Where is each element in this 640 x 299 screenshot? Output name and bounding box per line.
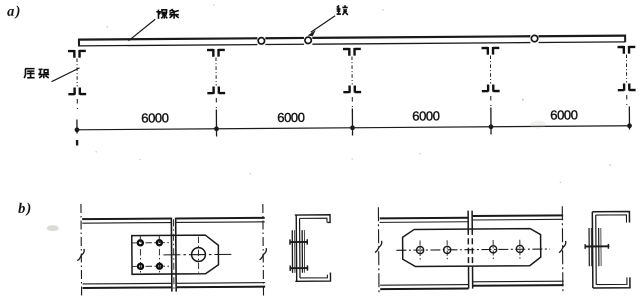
bolt B3 (138, 264, 143, 269)
hinge circle 3 (531, 35, 537, 41)
purlin beam segment 2 (265, 38, 304, 45)
label 屋架 (roof truss) glyphs (24, 69, 49, 79)
channel bottom flange with lip (593, 277, 630, 288)
hinge circle 2 (305, 37, 311, 43)
truss support 2 (207, 49, 225, 108)
butt joint lines (left detail) (171, 218, 176, 292)
bolt B1 (138, 240, 143, 245)
long splice plate octagon (403, 229, 541, 267)
break mark (right detail, right) (559, 241, 566, 253)
bolt B4 (157, 264, 162, 269)
splice centre line (172, 219, 175, 290)
channel web double line (295, 215, 297, 281)
truss support 3 (343, 48, 361, 107)
channel bottom flange with lip (295, 273, 330, 282)
scan speckles (94, 1, 611, 186)
svg-text:6000: 6000 (141, 110, 169, 125)
truss centre line right (right detail) (561, 206, 564, 293)
cleat plate bars (588, 228, 590, 266)
break mark on left centre line (77, 249, 84, 261)
label 檩条 (purlin) glyphs (156, 9, 179, 19)
bolt vertical centre marks (420, 240, 520, 260)
purlin piece 2 bottom flange lines (177, 283, 265, 288)
purlin piece 4 bottom flange lines (473, 281, 564, 286)
bolt with head and nut (upper) (289, 241, 308, 243)
dimension tick 3 (351, 108, 353, 135)
channel top flange with lip (592, 211, 629, 222)
purlin beam segment 3 (312, 36, 530, 44)
svg-text:6000: 6000 (550, 107, 578, 122)
bolt B7 (490, 246, 497, 253)
plate horizontal centre line (396, 249, 549, 250)
break mark on right centre line (259, 248, 266, 260)
dimension tick 2 (215, 109, 217, 136)
truss support 5 (617, 46, 635, 105)
purlin piece 4 top flange lines (473, 215, 564, 220)
bolt B8 (516, 245, 523, 252)
dimension tick 5 (628, 106, 630, 129)
cleat plate bars (291, 230, 293, 273)
hinge circle 1 (258, 38, 264, 44)
dimension line (76, 126, 631, 130)
pin vertical centre line (197, 237, 199, 273)
truss support 1 (68, 50, 86, 109)
purlin piece 1 top flange lines (82, 219, 171, 224)
svg-text:a): a) (7, 4, 22, 20)
purlin piece 2 top flange lines (176, 218, 264, 223)
butt joint lines (right detail, hidden behind plate) (468, 211, 473, 289)
dimension tick 4 (490, 107, 492, 134)
purlin beam segment 1 (79, 37, 257, 46)
splice plate with chamfered right end (132, 235, 219, 274)
truss centre line left (80, 204, 83, 297)
bolt row centrelines (132, 236, 169, 274)
pin horizontal centre line (163, 253, 233, 256)
leader line for 屋架 (51, 68, 79, 82)
channel top flange with lip (295, 215, 330, 223)
hinge pin hole (192, 248, 206, 262)
leader line for 檩条 (128, 19, 155, 41)
break mark (right detail, left) (375, 241, 382, 253)
truss centre line right (262, 204, 265, 296)
truss centre line left (right detail) (377, 207, 380, 295)
bolt B2 (157, 240, 162, 245)
bolt with head and nut (585, 245, 610, 247)
dimension tick 1 (76, 120, 78, 146)
channel web double line (591, 212, 594, 288)
purlin piece 3 bottom flange lines (380, 285, 468, 290)
leader line for 铰 with arrowhead (311, 16, 336, 33)
bolt B6 (444, 246, 451, 253)
purlin piece 3 top flange lines (380, 218, 468, 223)
bolt B5 (416, 246, 423, 253)
svg-text:6000: 6000 (412, 108, 440, 123)
svg-text:6000: 6000 (277, 110, 305, 125)
truss support 4 (482, 47, 500, 106)
bolt with head and nut (lower) (290, 267, 309, 269)
label 铰 (hinge) glyphs (336, 5, 347, 15)
purlin piece 1 bottom flange lines (83, 283, 172, 288)
svg-text:b): b) (18, 201, 33, 217)
purlin beam segment 4 (539, 34, 626, 42)
